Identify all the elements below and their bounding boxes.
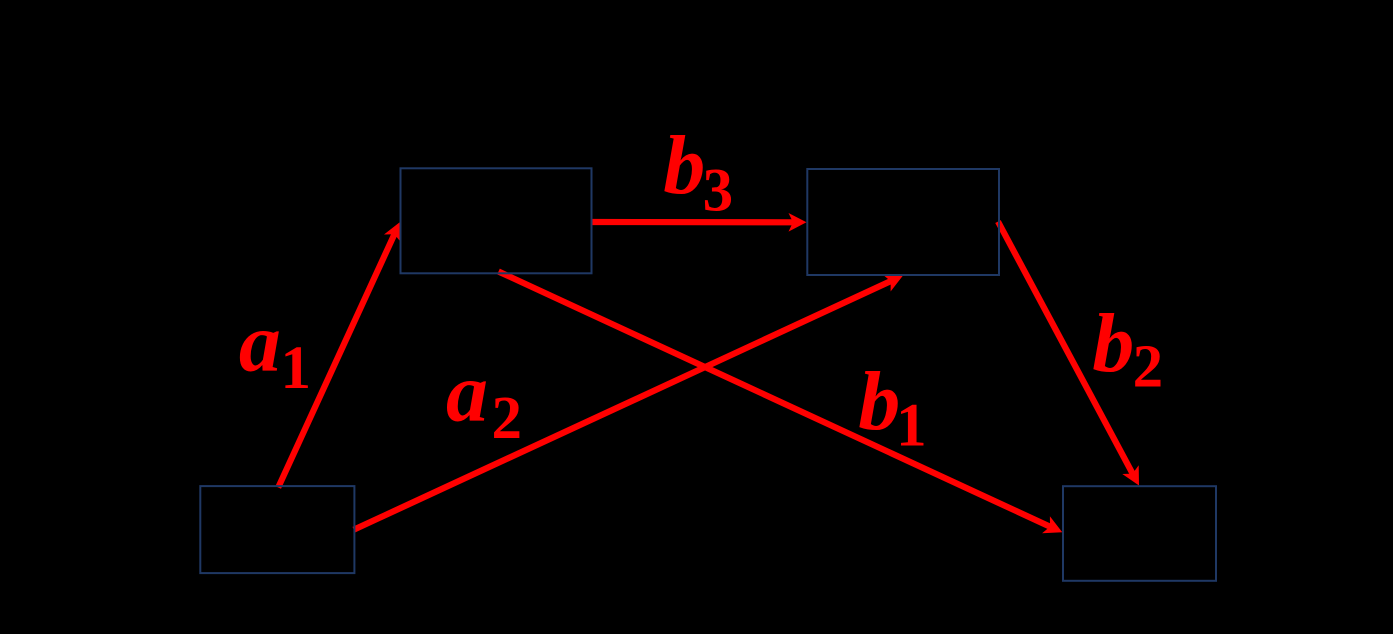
svg-text:b: b — [1092, 297, 1134, 390]
svg-text:1: 1 — [896, 393, 927, 460]
node label a2 — [446, 346, 522, 452]
box X (top-left) — [401, 168, 592, 273]
wire a1: bottom-left to top-left — [278, 222, 401, 488]
node label b3 — [663, 119, 733, 225]
box B (bottom-right) — [1063, 486, 1216, 581]
svg-text:b: b — [858, 355, 900, 448]
box M (top-right) — [807, 169, 999, 275]
wire b2: top-right to bottom-right — [998, 222, 1139, 486]
svg-text:a: a — [239, 296, 281, 389]
node label b2 — [1092, 297, 1163, 401]
svg-text:b: b — [663, 119, 705, 212]
node label a1 — [239, 296, 311, 402]
wire a2: bottom-left to top-right — [354, 275, 903, 530]
svg-text:a: a — [446, 346, 488, 439]
box A (bottom-left) — [200, 486, 354, 573]
wire b1: top-left to bottom-right — [499, 272, 1063, 534]
wire b3: top-left to top-right — [592, 213, 807, 232]
node label b1 — [858, 355, 926, 460]
svg-text:2: 2 — [492, 385, 523, 452]
svg-text:2: 2 — [1133, 334, 1164, 401]
svg-text:1: 1 — [281, 335, 312, 402]
svg-text:3: 3 — [703, 158, 734, 225]
